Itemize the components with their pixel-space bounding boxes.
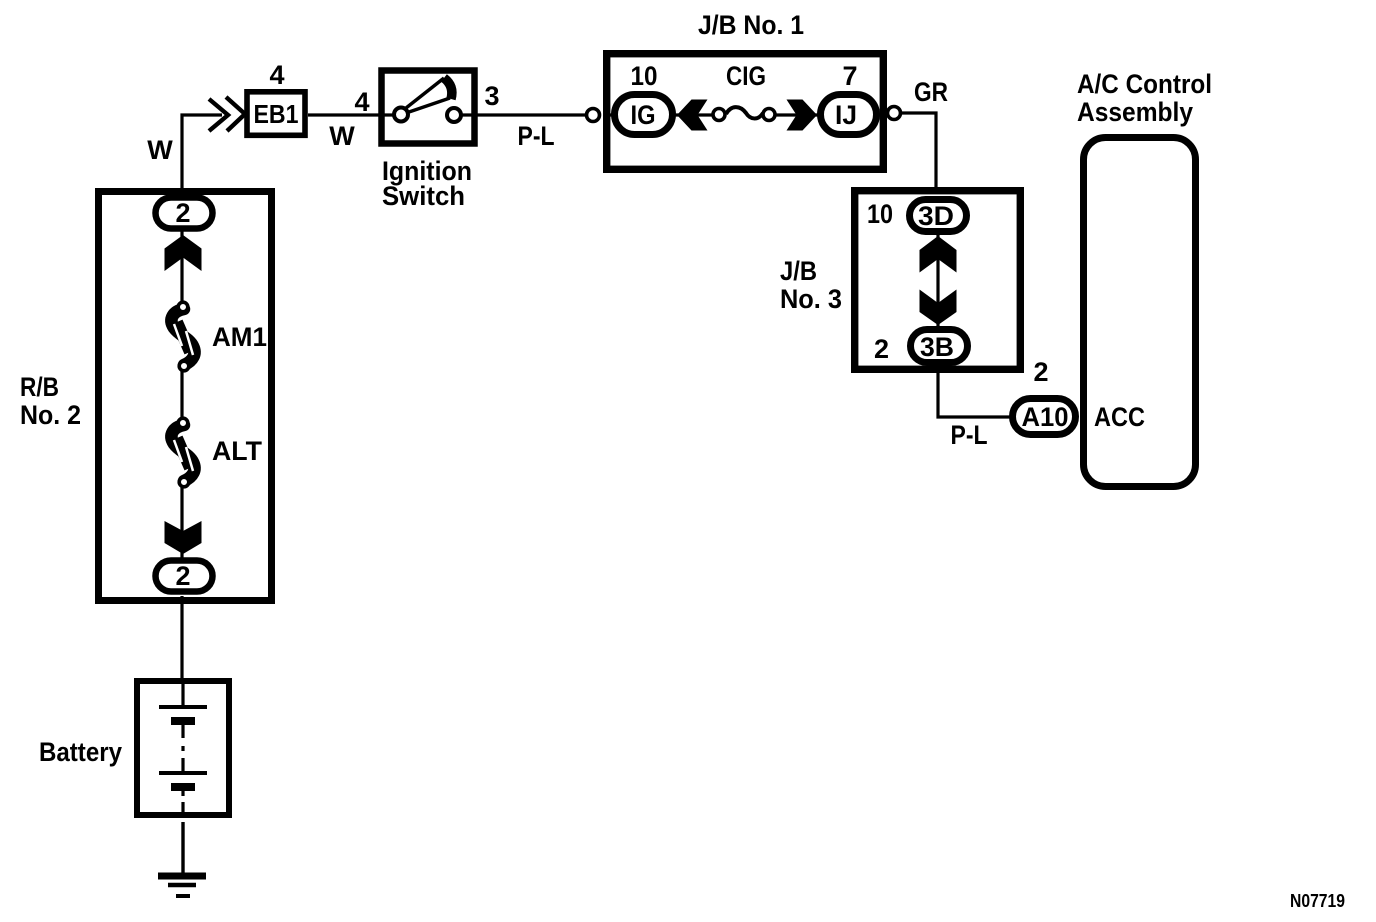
svg-text:Battery: Battery	[39, 737, 122, 767]
internal wire in J/B No.3	[936, 215, 939, 346]
connector EB1	[247, 92, 305, 136]
fuse AM1	[171, 302, 194, 371]
svg-text:P-L: P-L	[518, 121, 555, 151]
relay block R/B No.2 box	[99, 192, 272, 601]
battery cells	[159, 681, 207, 815]
svg-text:10: 10	[631, 61, 658, 91]
svg-text:N07719: N07719	[1290, 891, 1345, 911]
connector IJ oval	[821, 95, 877, 135]
connector arrow into EB1 (double chevron)	[209, 97, 245, 131]
svg-text:J/B No. 1: J/B No. 1	[698, 10, 804, 40]
svg-text:3D: 3D	[918, 201, 954, 231]
svg-text:AM1: AM1	[212, 322, 267, 352]
switch contact left	[394, 108, 408, 122]
svg-text:ALT: ALT	[212, 436, 262, 466]
junction block J/B No.1 box	[607, 54, 884, 170]
switch contact right	[447, 108, 461, 122]
arrow pointing left toward IG	[677, 100, 708, 131]
connector 3D oval	[910, 200, 967, 232]
svg-text:Switch: Switch	[382, 181, 465, 211]
svg-text:R/B: R/B	[20, 372, 59, 402]
junction block J/B No.3 box	[855, 191, 1021, 370]
connector 2 oval bottom	[156, 561, 213, 592]
battery box	[137, 681, 229, 815]
wire stub from right switch contact	[460, 113, 480, 116]
svg-text:2: 2	[874, 334, 889, 364]
arrow pointing right toward IJ	[787, 100, 818, 131]
arrow down above bottom oval	[165, 521, 202, 554]
wire from fuse AM1 to fuse ALT	[180, 362, 183, 426]
connector 3B oval	[911, 330, 968, 363]
A/C control assembly box	[1084, 138, 1196, 487]
connector 2 oval top	[156, 198, 213, 229]
wire from fuse CIG to IJ	[774, 113, 880, 116]
wire from battery to ground	[181, 822, 184, 874]
wire W from R/B No.2 pin 2 up and right to EB1	[182, 115, 222, 196]
svg-text:3: 3	[484, 81, 499, 111]
svg-text:2: 2	[175, 198, 190, 228]
svg-text:ACC: ACC	[1094, 402, 1145, 432]
wire stub to left switch contact	[378, 113, 395, 116]
arrow up below top oval	[165, 235, 202, 271]
fuse ALT	[171, 418, 194, 487]
wire from R/B No.2 to battery	[180, 596, 183, 681]
svg-text:J/B: J/B	[780, 256, 817, 286]
svg-text:3B: 3B	[920, 332, 954, 362]
svg-text:2: 2	[1033, 357, 1048, 387]
svg-text:W: W	[147, 135, 173, 165]
ignition switch box	[382, 71, 475, 144]
wire from IG to fuse CIG	[610, 113, 714, 116]
wire GR from J/B No.1 to J/B No.3	[901, 113, 936, 199]
svg-text:4: 4	[354, 87, 369, 117]
connector IG oval	[615, 95, 673, 135]
connector A10 oval	[1013, 399, 1076, 435]
svg-text:7: 7	[842, 61, 857, 91]
svg-text:No. 2: No. 2	[20, 400, 81, 430]
svg-text:4: 4	[269, 60, 284, 90]
svg-text:CIG: CIG	[726, 61, 766, 91]
svg-text:A10: A10	[1022, 402, 1069, 432]
svg-text:EB1: EB1	[254, 99, 299, 129]
wire from fuse ALT to pin 2 bottom	[180, 478, 183, 560]
switch lever	[406, 78, 452, 112]
wire P-L from 3B to A10	[938, 366, 1012, 417]
svg-text:A/C Control: A/C Control	[1077, 69, 1212, 99]
svg-text:P-L: P-L	[951, 420, 988, 450]
fuse CIG element (circle-wave-circle)	[726, 107, 763, 118]
wire from pin 2 top to fuse AM1	[180, 230, 183, 310]
svg-text:10: 10	[867, 199, 893, 229]
svg-text:2: 2	[175, 561, 190, 591]
arrow up between 3D and 3B	[920, 236, 957, 273]
terminal circle at J/B No.1 right	[888, 107, 901, 120]
arrow down between 3D and 3B	[920, 290, 957, 326]
ground	[158, 876, 206, 896]
wire P-L from switch to J/B No.1	[480, 113, 587, 116]
terminal circle at J/B No.1 left	[587, 109, 600, 122]
svg-text:Assembly: Assembly	[1077, 97, 1193, 127]
svg-text:No. 3: No. 3	[780, 284, 842, 314]
svg-text:GR: GR	[914, 77, 948, 107]
svg-text:IJ: IJ	[835, 100, 857, 130]
wire W from EB1 to Ignition Switch	[308, 113, 378, 116]
svg-text:IG: IG	[631, 100, 656, 130]
svg-text:W: W	[329, 121, 355, 151]
